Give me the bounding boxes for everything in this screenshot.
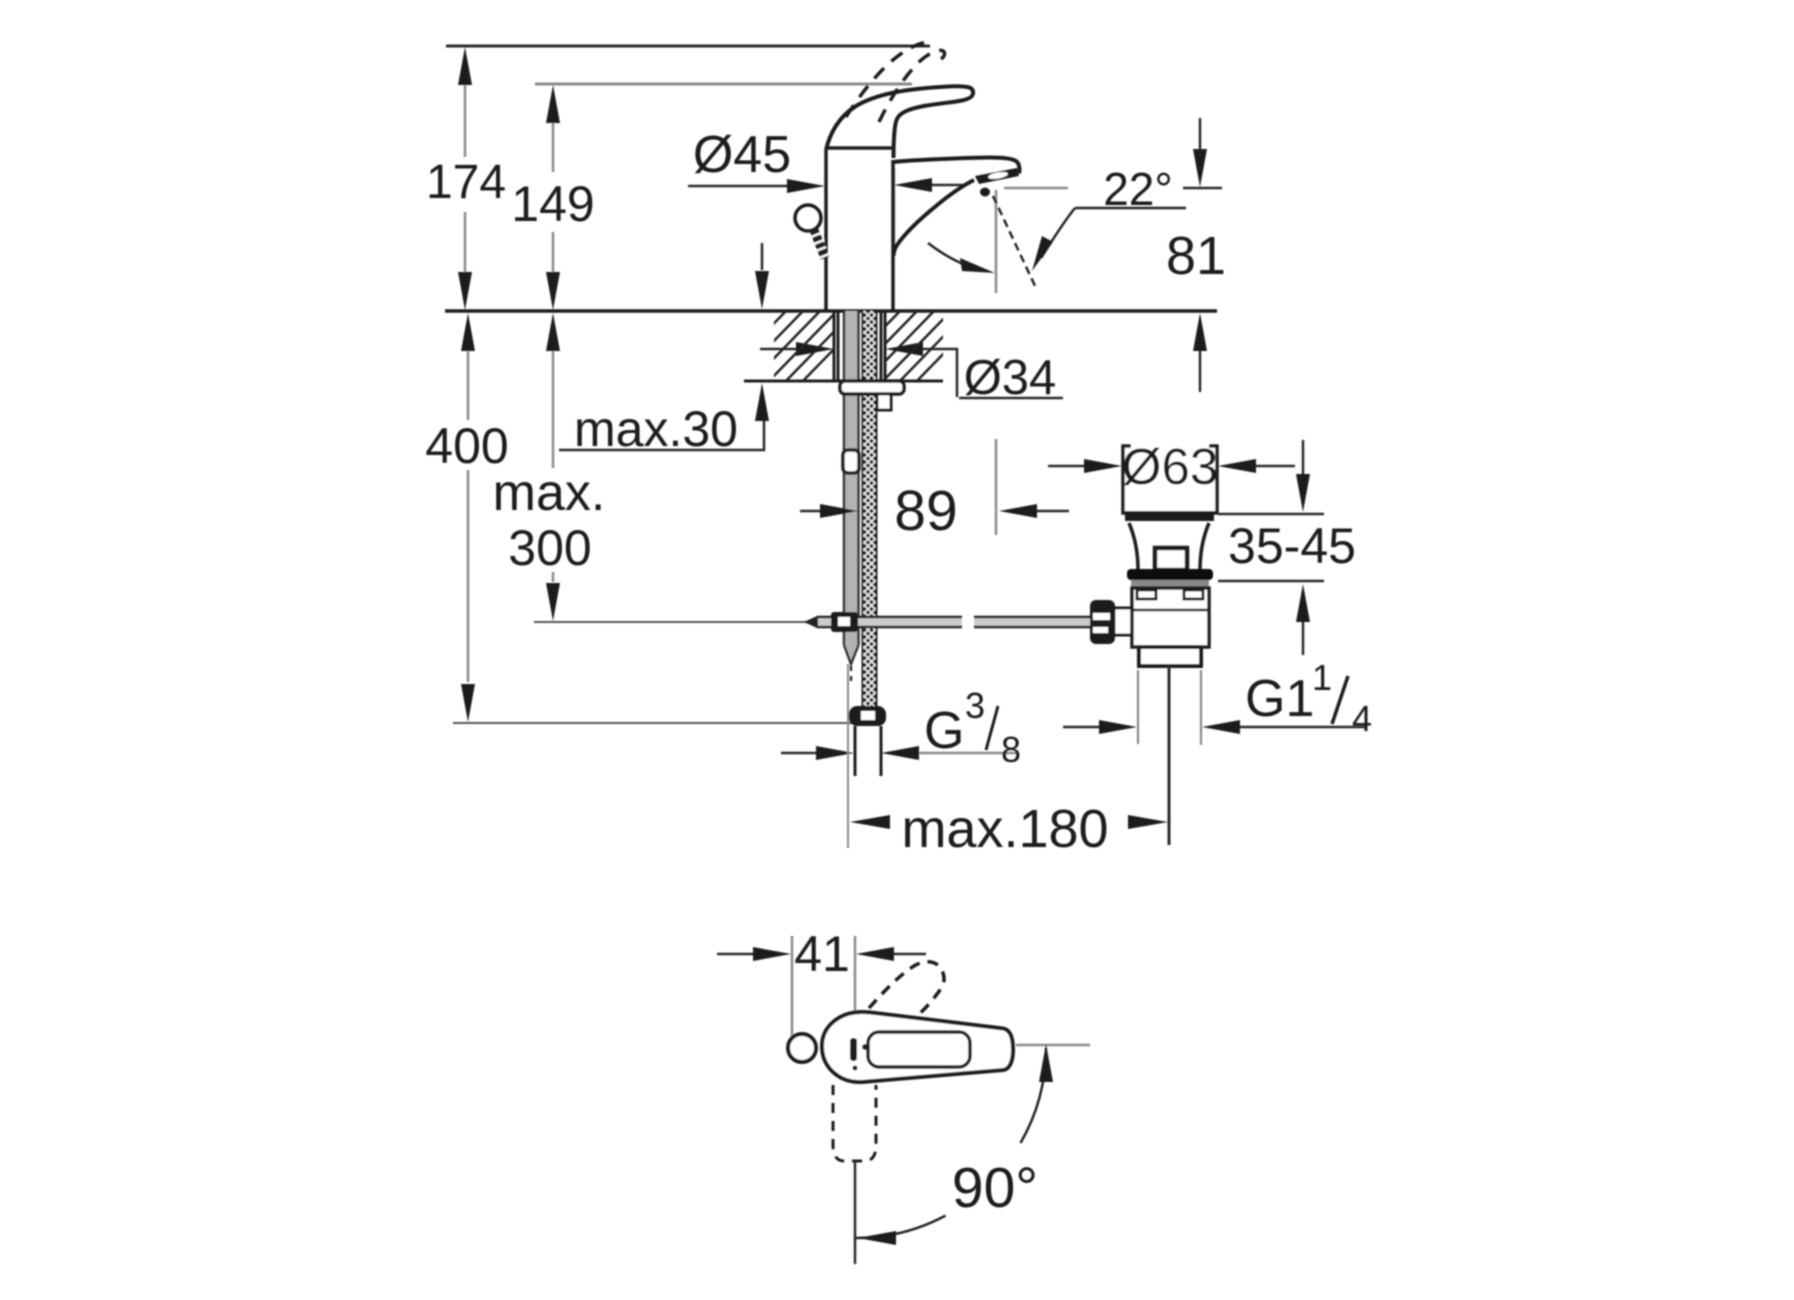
countertop section (445, 309, 1217, 383)
dimension G1 1/4 (1063, 657, 1372, 739)
svg-text:G: G (924, 702, 964, 760)
dimension 174 (426, 47, 506, 310)
neck taper (1129, 523, 1138, 570)
drain: pop-up waste head (1123, 446, 1217, 845)
shank edges in counter hole (837, 312, 840, 380)
svg-text:max.: max. (493, 464, 606, 522)
svg-text:22°: 22° (1103, 163, 1173, 215)
svg-text:G1: G1 (1245, 670, 1314, 728)
svg-text:1: 1 (1312, 657, 1332, 698)
pop-up knob (795, 205, 829, 258)
dimension max.180 (848, 664, 1168, 859)
deck underside line (744, 380, 943, 383)
pop-up actuating rod (horizontal) (804, 612, 1090, 632)
extension line: faucet height 149 ref (535, 83, 912, 86)
svg-text:174: 174 (426, 156, 506, 209)
dimension 41 (717, 926, 926, 1045)
dimension 35-45 (1218, 440, 1356, 655)
svg-text:41: 41 (794, 926, 850, 982)
dimension G3/8 (781, 685, 1021, 770)
svg-text:8: 8 (1001, 729, 1021, 770)
svg-text:3: 3 (965, 685, 985, 726)
dimension D45 (688, 126, 966, 252)
mounting collar (877, 394, 891, 410)
svg-text:90°: 90° (952, 1156, 1038, 1220)
flange (1127, 569, 1213, 580)
svg-text:35-45: 35-45 (1228, 518, 1356, 574)
svg-text:149: 149 (511, 176, 594, 232)
dimension D34 (760, 342, 1063, 405)
faucet body (826, 148, 893, 311)
lever (solid, side view) (826, 86, 973, 158)
svg-text:300: 300 (508, 520, 591, 576)
lever raised (dashed) (846, 43, 945, 123)
svg-text:4: 4 (1352, 698, 1372, 739)
under-deck: flexible supply hose (braided) (862, 311, 877, 706)
hole left wall (833, 311, 836, 381)
svg-text:Ø63: Ø63 (1122, 438, 1218, 495)
center line down (1168, 666, 1171, 845)
deck top line (445, 309, 1217, 313)
svg-text:81: 81 (1166, 226, 1226, 286)
aerator face (975, 168, 1019, 184)
center line below body (854, 1161, 857, 1264)
handle swung (dashed wedge) (869, 962, 944, 1016)
svg-text:89: 89 (894, 479, 957, 543)
dimension max.300 (493, 313, 818, 622)
dimension 400 (425, 313, 852, 723)
90 deg annotation (856, 1044, 1090, 1245)
G1 1/4 extension lines (1137, 670, 1139, 744)
valve body (1132, 588, 1209, 647)
svg-text:Ø34: Ø34 (964, 351, 1057, 405)
spout (894, 158, 1020, 257)
under-deck: pop-up rod tube (843, 311, 859, 682)
drain: rod clamp at valve (1090, 600, 1144, 644)
handle (top view) (822, 1012, 1013, 1082)
lower band (1139, 647, 1201, 666)
faucet body below handle (dashed) (833, 1085, 876, 1161)
hole right wall (884, 311, 887, 381)
svg-text:max.180: max.180 (901, 799, 1108, 859)
dimension 81 (1166, 118, 1226, 392)
dimension D63 (1048, 438, 1295, 495)
dimension max.30 (559, 243, 769, 457)
guide block (1155, 548, 1187, 570)
mounting washer under deck (840, 381, 904, 394)
dimension 149 (511, 85, 594, 310)
22 deg annotation (928, 163, 1186, 293)
extension line: lever raised max height (174 ref) (446, 45, 930, 48)
hatching left block (716, 309, 873, 383)
knob circle (top view) (788, 1034, 816, 1062)
svg-text:max.30: max.30 (574, 401, 738, 457)
connector window on rod (843, 450, 859, 473)
hatching right block (830, 309, 987, 383)
dimension 89 (800, 439, 1069, 543)
svg-text:Ø45: Ø45 (693, 126, 791, 184)
G3/8 hose nut (849, 706, 886, 726)
G3/8 pipe end (855, 726, 881, 776)
